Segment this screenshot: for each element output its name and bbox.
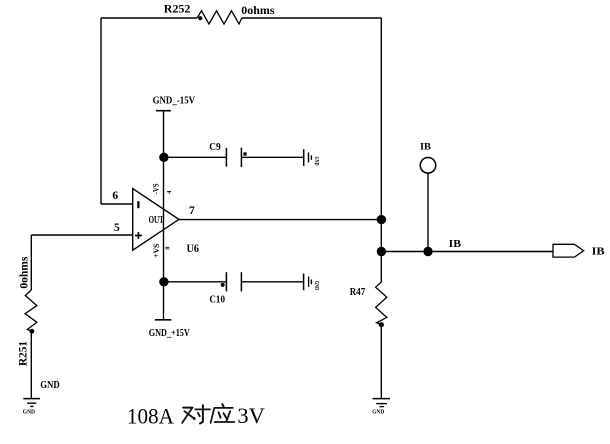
svg-text:+VS: +VS	[151, 243, 161, 257]
wire pin5 horizontal	[31, 234, 132, 236]
svg-text:3V: 3V	[237, 403, 265, 428]
junction dot IB tap	[423, 247, 432, 256]
svg-text:R47: R47	[350, 287, 365, 298]
wire right vertical	[380, 18, 382, 282]
svg-text:C9: C9	[209, 142, 221, 153]
capacitor C10	[221, 272, 242, 291]
svg-text:R252: R252	[164, 1, 191, 15]
op-amp U6	[133, 189, 179, 251]
svg-text:GND: GND	[372, 410, 385, 416]
pin dot R251	[30, 329, 35, 334]
connector IB	[553, 244, 584, 257]
svg-text:GND: GND	[313, 157, 319, 166]
caption hanzi ying	[211, 404, 235, 423]
svg-text:IB: IB	[449, 239, 462, 250]
svg-text:4: 4	[166, 190, 173, 194]
svg-text:0ohms: 0ohms	[241, 3, 275, 17]
resistor R251	[25, 290, 37, 331]
svg-text:5: 5	[114, 222, 120, 234]
wire C9 left	[164, 156, 227, 158]
terminal circle IB	[420, 158, 436, 174]
wire top left horizontal	[101, 17, 197, 19]
svg-text:IB: IB	[592, 247, 605, 258]
ground symbol left	[23, 399, 40, 407]
svg-text:OUT: OUT	[149, 215, 164, 226]
pin dot R47	[379, 322, 384, 327]
wire supply bottom	[163, 282, 165, 320]
svg-text:GND_-15V: GND_-15V	[153, 96, 196, 107]
wire R251 bottom	[30, 331, 32, 398]
wire C10 right	[241, 281, 303, 283]
svg-text:R251: R251	[15, 341, 29, 366]
capacitor C9	[226, 148, 246, 167]
svg-text:8: 8	[164, 246, 171, 250]
minus mark U6	[137, 201, 139, 208]
power symbol GND_-15V	[156, 110, 171, 112]
wire top right horizontal	[242, 17, 381, 19]
ground rotated at C9	[304, 149, 319, 166]
svg-text:C10: C10	[209, 295, 225, 306]
svg-text:6: 6	[112, 190, 118, 202]
wire pin6 stub	[101, 203, 133, 205]
wire R251 top vertical	[30, 235, 32, 290]
svg-text:-VS: -VS	[151, 183, 161, 194]
svg-text:7: 7	[189, 205, 195, 217]
plus mark U6	[135, 232, 142, 239]
svg-text:U6: U6	[187, 241, 200, 255]
wire C10 left	[164, 281, 227, 283]
svg-text:108A: 108A	[127, 404, 174, 429]
junction dot output node	[377, 215, 386, 224]
wire IB horizontal	[381, 251, 553, 253]
resistor R252	[197, 11, 242, 24]
svg-text:0ohms: 0ohms	[17, 256, 31, 288]
ground rotated at C10	[304, 274, 319, 291]
wire R47 bottom	[380, 324, 382, 398]
junction dot +VS node	[159, 277, 168, 286]
pin dot R252 pin1	[198, 16, 202, 20]
wire output pin7	[179, 219, 381, 221]
svg-text:GND: GND	[313, 281, 319, 290]
wire supply top	[163, 111, 165, 158]
svg-text:GND: GND	[23, 409, 36, 415]
ground symbol R47	[373, 399, 390, 407]
wire supply through opamp	[163, 157, 165, 281]
junction dot IB node	[377, 247, 386, 256]
resistor R47	[376, 282, 387, 324]
wire IB circle drop	[427, 173, 429, 251]
wire C9 right	[241, 156, 303, 158]
svg-text:GND_+15V: GND_+15V	[149, 328, 190, 339]
svg-text:GND: GND	[40, 380, 60, 391]
junction dot -VS node	[159, 153, 168, 162]
power symbol GND_+15V	[155, 319, 171, 321]
svg-text:IB: IB	[420, 141, 431, 151]
wire feedback left vertical	[100, 18, 102, 204]
caption hanzi dui	[182, 405, 210, 423]
